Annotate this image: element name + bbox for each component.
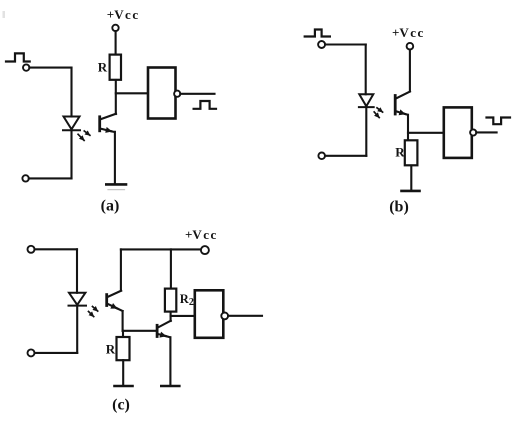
wire emitter vertical (a) xyxy=(114,132,116,184)
input pulse waveform (a) xyxy=(6,53,30,61)
svg-text:R: R xyxy=(98,60,108,75)
input terminal bottom (c) xyxy=(28,349,35,356)
resistor R (c) xyxy=(117,337,130,360)
transistor Q4 (c) xyxy=(157,321,171,338)
svg-text:R: R xyxy=(395,144,405,159)
scan artifact mark top-left xyxy=(3,11,6,18)
wire output (c) xyxy=(228,315,262,317)
wire node to Q4 base (c) xyxy=(123,330,157,332)
+Vcc terminal (b) xyxy=(407,43,414,50)
wire top input (c) xyxy=(35,248,78,250)
wire emitter vertical (b) xyxy=(407,115,409,140)
+Vcc label (b) xyxy=(392,25,425,40)
wire left rail lower (a) xyxy=(70,130,72,178)
input terminal top (c) xyxy=(28,246,35,253)
resistor R2 (c) xyxy=(165,289,176,312)
wire Vcc to resistor (a) xyxy=(115,31,117,55)
input terminal top (b) xyxy=(318,41,325,48)
svg-text:(c): (c) xyxy=(112,397,130,414)
svg-text:R2: R2 xyxy=(180,292,194,308)
wire left rail lower (b) xyxy=(365,107,367,156)
wire node to gate (a) xyxy=(116,92,148,94)
light arrows (a) xyxy=(78,131,90,140)
input terminal bottom (b) xyxy=(318,153,325,160)
+Vcc terminal (c) xyxy=(201,246,209,254)
ground (b) xyxy=(402,190,420,193)
label R (a) xyxy=(98,60,108,75)
LED D3 optocoupler input (c) xyxy=(69,293,87,306)
svg-text:+Vcc: +Vcc xyxy=(392,25,425,40)
label (a) xyxy=(101,198,120,215)
wire output (b) xyxy=(476,131,496,133)
wire top input (b) xyxy=(325,43,366,45)
label (b) xyxy=(389,199,409,216)
inverter gate U2 (b) xyxy=(444,107,477,157)
wire R2 to collector node (c) xyxy=(170,312,172,321)
+Vcc rail (c) xyxy=(121,248,201,250)
inverter gate U1 (a) xyxy=(148,68,180,119)
ground (a) xyxy=(106,183,126,186)
wire left rail upper (a) xyxy=(70,68,72,117)
input terminal top (a) xyxy=(23,64,29,70)
wire emitter vertical (c) xyxy=(122,311,124,331)
phototransistor Q3 (c) xyxy=(107,291,123,311)
label R (c) xyxy=(106,341,116,356)
resistor R (a) xyxy=(110,55,121,80)
svg-text:(b): (b) xyxy=(389,199,409,216)
wire rail left drop (c) xyxy=(120,249,122,290)
wire node to gate (b) xyxy=(408,132,444,134)
phototransistor Q2 (b) xyxy=(395,92,410,115)
+Vcc terminal (a) xyxy=(112,25,118,31)
wire bottom input (a) xyxy=(29,177,72,179)
output pulse waveform inverted (b) xyxy=(487,118,511,125)
wire resistor to collector (a) xyxy=(115,80,117,114)
wire output (a) xyxy=(180,93,214,95)
label R2 (c) xyxy=(180,292,194,308)
svg-text:(a): (a) xyxy=(101,198,120,215)
wire node to gate (c) xyxy=(171,315,195,317)
wire resistor to ground (c) xyxy=(122,360,124,385)
wire Vcc to collector (b) xyxy=(409,50,411,92)
svg-text:R: R xyxy=(106,341,116,356)
svg-text:+Vcc: +Vcc xyxy=(107,7,140,22)
ground left (c) xyxy=(115,385,133,388)
ground (a) faint smudge xyxy=(108,189,125,191)
resistor R (b) xyxy=(405,140,418,165)
wire bottom input (b) xyxy=(325,155,366,157)
wire resistor to ground (b) xyxy=(410,166,412,190)
wire node to resistor (c) xyxy=(122,331,124,337)
wire left rail upper (c) xyxy=(76,249,78,292)
input terminal bottom (a) xyxy=(22,175,28,181)
+Vcc label (a) xyxy=(107,7,140,22)
light arrows (b) xyxy=(374,108,382,118)
wire top input (a) xyxy=(29,67,71,69)
wire bottom input (c) xyxy=(35,352,78,354)
label (c) xyxy=(112,397,130,414)
input pulse waveform (b) xyxy=(305,30,330,37)
+Vcc label (c) xyxy=(185,227,218,242)
output pulse waveform (a) xyxy=(194,101,216,109)
light arrows (c) xyxy=(89,307,98,317)
label R (b) xyxy=(395,144,405,159)
inverter gate U3 (c) xyxy=(195,290,228,338)
ground right (c) xyxy=(161,385,179,388)
svg-text:+Vcc: +Vcc xyxy=(185,227,218,242)
phototransistor Q1 (a) xyxy=(100,114,116,132)
wire left rail upper (b) xyxy=(365,45,367,95)
LED D1 optocoupler input (a) xyxy=(63,117,80,131)
wire emitter vertical (c) xyxy=(169,337,171,385)
LED D2 optocoupler input (b) xyxy=(359,94,374,107)
wire left rail lower (c) xyxy=(76,306,78,353)
wire rail middle drop (c) xyxy=(170,249,172,289)
